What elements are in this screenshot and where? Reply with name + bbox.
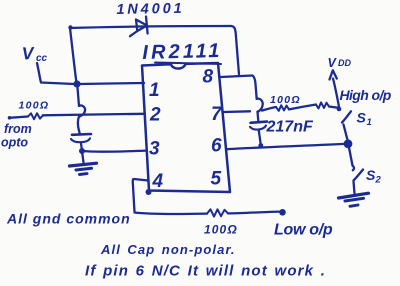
wire Vcc lead bbox=[37, 63, 74, 84]
switch S1 lever bbox=[342, 111, 351, 122]
svg-text:V: V bbox=[21, 43, 35, 63]
switch S1 lower lead bbox=[344, 125, 348, 141]
node Vcc junction bbox=[73, 80, 80, 87]
svg-text:217nF: 217nF bbox=[266, 119, 314, 136]
node top-left corner blob bbox=[68, 25, 72, 29]
ground GND1 bars bbox=[70, 163, 97, 166]
svg-text:4: 4 bbox=[152, 171, 164, 192]
squiggle before High node bbox=[316, 102, 329, 108]
wire pin 6 bbox=[228, 144, 345, 149]
wire R3 to Low o/p terminal bbox=[228, 212, 279, 214]
diode D1 1N4001 bbox=[136, 20, 147, 32]
svg-text:5: 5 bbox=[211, 169, 222, 190]
node half-bridge mid junction bbox=[344, 139, 353, 148]
node Low o/p terminal bbox=[279, 209, 286, 216]
switch S2 to ground stem bbox=[354, 182, 355, 194]
wire hop over pin-2 wire bbox=[79, 105, 85, 116]
wire top rail bbox=[70, 26, 231, 28]
resistor R1 zigzag bbox=[28, 113, 43, 119]
wire pin 4 stub bbox=[133, 179, 148, 212]
svg-text:from: from bbox=[4, 122, 32, 136]
wire top-right drop to pin 8 bbox=[231, 26, 239, 75]
svg-text:1: 1 bbox=[367, 117, 372, 128]
node High o/p junction blob bbox=[337, 107, 342, 112]
node capacitor C2 to pin-6 junction bbox=[258, 143, 263, 148]
resistor R3 100R zigzag bbox=[207, 209, 228, 216]
svg-text:Low o/p: Low o/p bbox=[274, 222, 333, 239]
resistor R1 100R lead-left bbox=[8, 116, 12, 120]
svg-text:2: 2 bbox=[375, 175, 382, 186]
wire hop over pin-7 wire bbox=[257, 98, 263, 112]
svg-text:100Ω: 100Ω bbox=[270, 94, 301, 106]
wire pin 7 (right of hop) bbox=[262, 107, 276, 111]
wire bootstrap vertical bbox=[252, 76, 257, 100]
resistor R1 lead-right (wire pin 2) bbox=[43, 114, 144, 116]
node pin-3 junction bbox=[79, 148, 85, 154]
wire pin 1 bbox=[80, 83, 144, 84]
wire pin 3 bbox=[82, 151, 146, 152]
wire mid junction down bbox=[349, 148, 353, 166]
svg-text:S: S bbox=[366, 167, 376, 183]
wire VDD shaft bbox=[333, 79, 340, 110]
label IR2111 underline bbox=[155, 63, 221, 65]
capacitor C2 top plate bbox=[251, 122, 268, 123]
svg-text:8: 8 bbox=[203, 67, 214, 88]
wire pin 8 bbox=[221, 76, 252, 78]
svg-text:All Cap non-polar.: All Cap non-polar. bbox=[100, 242, 236, 257]
wire left vertical (top rail to Vcc node) bbox=[70, 28, 77, 83]
wire vertical below Vcc node bbox=[78, 88, 80, 107]
svg-text:High o/p: High o/p bbox=[340, 87, 392, 103]
svg-text:3: 3 bbox=[149, 139, 160, 160]
wire squiggle to High node bbox=[329, 107, 339, 108]
svg-text:6: 6 bbox=[211, 136, 222, 157]
node IC bottom-left corner blob bbox=[146, 189, 152, 195]
wire R2 to second squiggle bbox=[289, 105, 316, 110]
IC U1 IR2111 body bbox=[142, 63, 230, 192]
svg-text:DD: DD bbox=[338, 58, 351, 68]
wire hop to capacitor C2 bbox=[256, 112, 259, 122]
resistor R2 100R zigzag bbox=[276, 105, 289, 111]
svg-text:IR2111: IR2111 bbox=[142, 40, 223, 64]
svg-text:7: 7 bbox=[211, 104, 223, 125]
wire hop to capacitor bbox=[78, 116, 80, 134]
svg-text:100Ω: 100Ω bbox=[19, 100, 50, 112]
svg-text:2: 2 bbox=[149, 105, 161, 126]
wire pin 4 horizontal bbox=[135, 213, 208, 215]
svg-text:1N4001: 1N4001 bbox=[116, 1, 184, 18]
switch S2 lever bbox=[354, 170, 364, 181]
svg-text:100Ω: 100Ω bbox=[204, 223, 238, 237]
ground GND1 stem bbox=[82, 151, 84, 163]
wire capacitor C2 to pin-6 wire bbox=[259, 131, 261, 145]
switch S2 top hook bbox=[353, 166, 355, 171]
ground GND2 bars bbox=[339, 193, 369, 198]
svg-text:All gnd common: All gnd common bbox=[6, 211, 131, 227]
capacitor C1 top plate bbox=[72, 133, 91, 136]
svg-text:If pin 6 N/C It will not work: If pin 6 N/C It will not work . bbox=[85, 263, 326, 280]
wire pin 7 (left of hop) bbox=[224, 110, 250, 113]
svg-text:opto: opto bbox=[1, 136, 28, 150]
capacitor C2 bottom plate bbox=[250, 126, 266, 130]
capacitor C1 bottom plate bbox=[71, 138, 90, 142]
svg-text:S: S bbox=[357, 110, 367, 126]
wire capacitor C1 to pin-3 node bbox=[81, 144, 82, 151]
power VDD arrowhead bbox=[330, 70, 337, 79]
svg-text:1: 1 bbox=[149, 80, 160, 101]
